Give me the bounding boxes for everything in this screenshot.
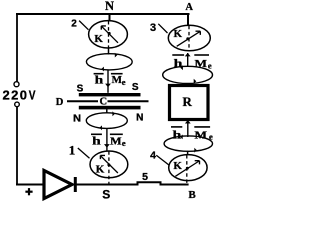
- svg-text:N: N: [73, 114, 81, 125]
- svg-text:C: C: [100, 97, 108, 108]
- svg-text:e: e: [208, 60, 212, 70]
- svg-text:B: B: [188, 189, 196, 201]
- svg-text:N: N: [136, 113, 143, 124]
- svg-text:K: K: [173, 160, 182, 172]
- svg-text:5: 5: [142, 171, 148, 183]
- svg-text:M: M: [195, 58, 208, 70]
- svg-text:2: 2: [71, 18, 77, 29]
- svg-text:N: N: [105, 0, 114, 13]
- svg-text:K: K: [96, 164, 105, 176]
- svg-text:D: D: [56, 97, 64, 108]
- svg-text:e: e: [122, 77, 126, 87]
- svg-text:220: 220: [3, 87, 29, 102]
- svg-text:h: h: [174, 56, 183, 70]
- svg-text:K: K: [94, 33, 103, 45]
- svg-text:V: V: [29, 88, 36, 102]
- svg-text:A: A: [185, 2, 193, 13]
- svg-text:M: M: [195, 129, 208, 141]
- svg-text:h: h: [92, 134, 101, 148]
- svg-text:R: R: [183, 94, 193, 109]
- svg-text:1: 1: [69, 142, 76, 157]
- svg-text:4: 4: [150, 150, 156, 162]
- svg-text:e: e: [209, 132, 213, 142]
- svg-text:S: S: [77, 84, 84, 95]
- svg-text:K: K: [174, 28, 183, 40]
- svg-text:S: S: [132, 82, 139, 93]
- svg-text:M: M: [110, 136, 122, 148]
- svg-text:3: 3: [150, 22, 156, 34]
- svg-text:S: S: [102, 188, 110, 202]
- svg-text:h: h: [95, 72, 104, 86]
- svg-text:e: e: [122, 138, 126, 148]
- svg-text:h: h: [173, 127, 182, 141]
